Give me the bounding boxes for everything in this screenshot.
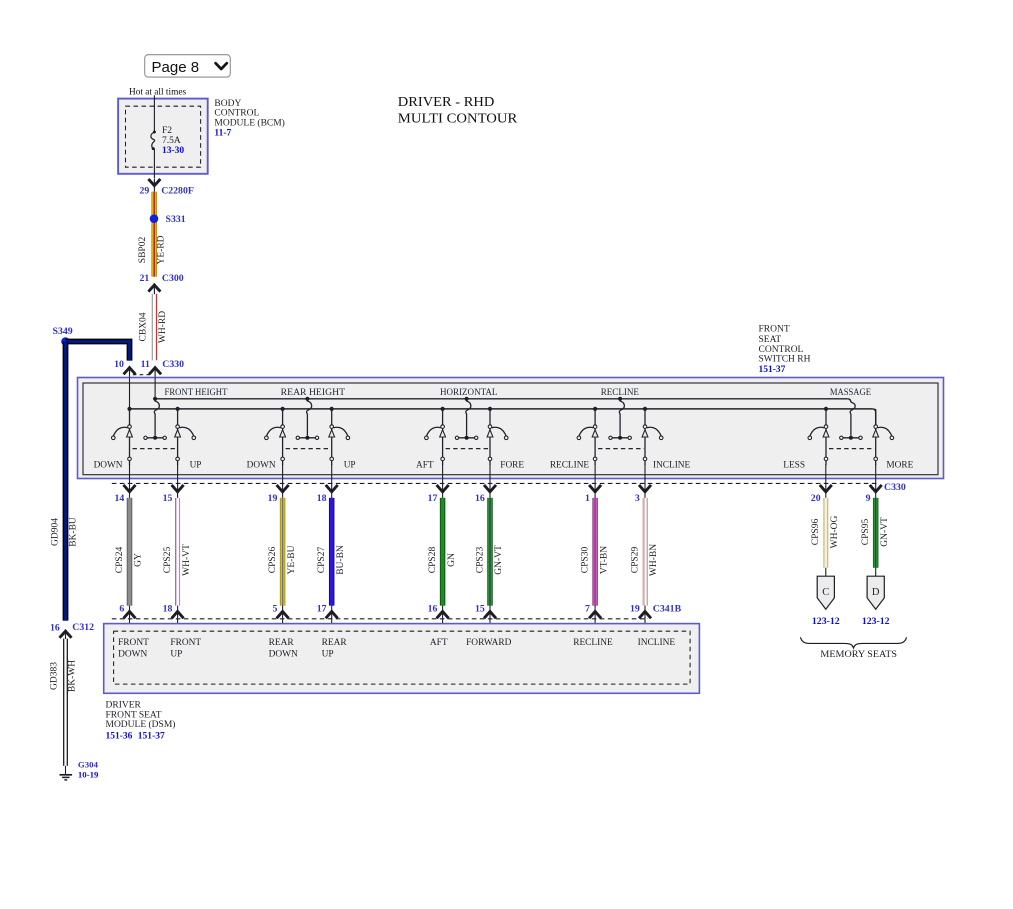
memory seats brace [801, 637, 907, 648]
svg-text:11-7: 11-7 [214, 129, 231, 139]
svg-text:FORWARD: FORWARD [466, 638, 512, 648]
svg-text:DOWN: DOWN [118, 650, 147, 660]
wire CPS23 GN-VT [475, 498, 504, 606]
svg-text:REAR: REAR [322, 638, 348, 648]
connector C330 label bottom [884, 482, 906, 493]
switch FRONT HEIGHT DOWN [112, 407, 133, 465]
svg-text:CPS95: CPS95 [861, 519, 871, 546]
svg-text:MEMORY SEATS: MEMORY SEATS [820, 650, 897, 660]
svg-text:19: 19 [268, 493, 278, 504]
switch box output pin 15 arrow [163, 464, 184, 504]
svg-text:FRONT SEAT: FRONT SEAT [106, 710, 162, 720]
svg-text:CPS28: CPS28 [428, 547, 438, 574]
switch FRONT HEIGHT UP [175, 407, 196, 465]
svg-text:G304: G304 [78, 760, 99, 770]
section label FRONT HEIGHT [165, 388, 228, 398]
svg-text:GD383: GD383 [49, 662, 59, 690]
svg-text:CPS24: CPS24 [115, 547, 125, 574]
bus wire from pin 10 common (bus2) [130, 409, 876, 427]
inline connector D 123-12 [862, 568, 890, 627]
svg-text:MODULE (DSM): MODULE (DSM) [106, 719, 176, 730]
wire CPS29 WH-BN [630, 498, 659, 606]
contact bar FRONT HEIGHT [144, 436, 167, 440]
wire CPS28 GN [428, 498, 457, 606]
splice S331 [150, 214, 186, 225]
connector C341B label [653, 603, 682, 614]
svg-text:GY: GY [134, 553, 144, 567]
mechanical link HORIZONTAL [446, 448, 489, 450]
contact bar HORIZONTAL [455, 436, 478, 440]
switch box output pin 9 arrow [866, 464, 882, 504]
svg-text:21: 21 [140, 273, 150, 284]
svg-text:SWITCH RH: SWITCH RH [759, 355, 811, 365]
svg-text:LESS: LESS [783, 460, 805, 470]
svg-text:14: 14 [115, 493, 125, 504]
svg-text:3: 3 [635, 493, 640, 504]
svg-text:SEAT: SEAT [759, 335, 782, 345]
switch REAR HEIGHT UP [329, 407, 350, 465]
svg-text:C341B: C341B [653, 603, 682, 614]
svg-text:CPS96: CPS96 [811, 519, 821, 546]
section label RECLINE [601, 388, 640, 398]
svg-text:18: 18 [163, 603, 173, 614]
svg-text:16: 16 [428, 603, 438, 614]
contact bar REAR HEIGHT [296, 436, 319, 440]
svg-text:CPS30: CPS30 [581, 547, 591, 574]
svg-text:YE-RD: YE-RD [157, 235, 167, 264]
svg-text:CPS23: CPS23 [475, 547, 485, 574]
DSM input pin 17 arrow [317, 603, 338, 631]
mechanical link MASSAGE [829, 448, 875, 450]
switch RECLINE RECLINE [577, 407, 598, 465]
svg-text:AFT: AFT [430, 638, 448, 648]
connector C330 boundary dashed line [112, 482, 879, 484]
svg-text:WH-VT: WH-VT [182, 544, 192, 576]
svg-text:MODULE (BCM): MODULE (BCM) [214, 117, 284, 128]
switch HORIZONTAL FORE [487, 407, 508, 465]
switch box output pin 3 arrow [635, 464, 651, 504]
wire pin 11 entry into box [154, 378, 156, 399]
svg-text:FRONT: FRONT [170, 638, 201, 648]
label DOWN / UP [94, 460, 202, 470]
DSM input pin 7 arrow [585, 603, 601, 631]
svg-text:123-12: 123-12 [812, 616, 840, 627]
switch MASSAGE MORE [873, 409, 894, 465]
svg-text:UP: UP [170, 650, 182, 660]
BCM module box [118, 99, 208, 174]
svg-text:WH-RD: WH-RD [158, 311, 168, 343]
svg-text:D: D [872, 587, 880, 598]
DSM input pin 18 arrow [163, 603, 184, 631]
switch box output pin 19 arrow [268, 464, 289, 504]
label LESS / MORE [783, 460, 913, 470]
svg-text:1: 1 [585, 493, 590, 504]
wire CBX04 WH-RD [138, 294, 167, 361]
section label HORIZONTAL [440, 388, 498, 398]
page select dropdown [145, 55, 231, 77]
svg-text:13-30: 13-30 [162, 146, 184, 156]
svg-text:15: 15 [475, 603, 485, 614]
svg-text:RECLINE: RECLINE [573, 638, 613, 648]
connector C341B boundary dashed line [112, 618, 648, 620]
svg-text:MULTI CONTOUR: MULTI CONTOUR [398, 111, 518, 126]
svg-text:7: 7 [585, 603, 590, 614]
switch box output pin 1 arrow [585, 464, 601, 504]
wire from hot feed into fuse [153, 95, 155, 132]
label RECLINE / INCLINE [550, 460, 691, 470]
switch box output pin 14 arrow [115, 464, 136, 504]
svg-text:CPS25: CPS25 [163, 547, 173, 574]
svg-text:C: C [822, 587, 829, 598]
wire CPS30 VT-BN [581, 498, 610, 606]
wire CPS27 BU-BN [317, 498, 346, 606]
svg-text:29: 29 [140, 186, 150, 197]
svg-text:CONTROL: CONTROL [759, 345, 804, 355]
DSM function label AFT [430, 638, 448, 648]
svg-text:YE-BU: YE-BU [287, 545, 297, 574]
svg-text:REAR HEIGHT: REAR HEIGHT [281, 388, 346, 398]
svg-text:20: 20 [811, 493, 821, 504]
connector C300 pin 21 [140, 273, 184, 294]
svg-text:RECLINE: RECLINE [550, 460, 590, 470]
wire CPS25 WH-VT [163, 498, 192, 606]
front seat control switch RH box [78, 378, 944, 479]
svg-text:10: 10 [114, 359, 124, 370]
svg-text:GD904: GD904 [50, 518, 60, 546]
wire SBP02 YE-RD [138, 192, 167, 277]
label Hot at all times [129, 87, 186, 97]
contact bar MASSAGE [840, 436, 863, 440]
wire from fuse to BCM box bottom [153, 149, 155, 179]
svg-text:C330: C330 [884, 482, 906, 493]
driver front seat module DSM box [104, 624, 700, 694]
switch box output pin 17 arrow [428, 464, 449, 504]
node RECLINE center tap [618, 397, 624, 436]
switch RECLINE INCLINE [642, 407, 663, 465]
svg-text:INCLINE: INCLINE [653, 460, 690, 470]
svg-text:17: 17 [428, 493, 438, 504]
connector C312 pin 16 [50, 622, 94, 639]
svg-text:C312: C312 [72, 622, 94, 633]
node REAR HEIGHT center tap [305, 397, 311, 436]
svg-text:BU-BN: BU-BN [336, 545, 346, 575]
svg-text:RECLINE: RECLINE [601, 388, 640, 398]
svg-text:MORE: MORE [886, 460, 913, 470]
svg-text:16: 16 [475, 493, 485, 504]
label MEMORY SEATS [820, 650, 897, 660]
connector C2280F pin 29 arrow [140, 179, 194, 197]
title DRIVER - RHD MULTI CONTOUR [398, 94, 518, 126]
wire CPS95 GN-VT [861, 498, 890, 568]
connector C330 pins 10 and 11 [114, 359, 184, 378]
switch REAR HEIGHT DOWN [265, 407, 286, 465]
svg-text:CONTROL: CONTROL [214, 109, 259, 119]
svg-text:GN: GN [447, 553, 457, 567]
DSM function label RECLINE [573, 638, 613, 648]
svg-text:9: 9 [866, 493, 871, 504]
fuse F2 7.5A 13-30 [151, 126, 185, 156]
mechanical link REAR HEIGHT [286, 448, 331, 450]
wire GD904 BK-BU down from S349 [50, 342, 78, 621]
ground G304 10-19 [60, 760, 100, 780]
svg-text:6: 6 [119, 603, 124, 614]
svg-text:7.5A: 7.5A [162, 136, 181, 146]
label DOWN / UP [247, 460, 356, 470]
node MASSAGE center tap [850, 402, 855, 436]
switch box output pin 16 arrow [475, 464, 496, 504]
label FRONT SEAT CONTROL SWITCH RH 151-37 [759, 325, 811, 375]
svg-text:18: 18 [317, 493, 327, 504]
bus wire from pin 11 feed (bus1) [155, 399, 851, 403]
section label REAR HEIGHT [281, 388, 346, 398]
svg-text:GN-VT: GN-VT [494, 545, 504, 575]
svg-text:INCLINE: INCLINE [638, 638, 676, 648]
switch box output pin 18 arrow [317, 464, 338, 504]
svg-text:WH-OG: WH-OG [830, 516, 840, 549]
splice S349 [53, 326, 73, 346]
svg-text:UP: UP [344, 460, 356, 470]
inline connector C 123-12 [812, 568, 840, 627]
switch MASSAGE LESS [808, 407, 829, 465]
DSM function label FRONT UP [170, 638, 201, 660]
svg-text:5: 5 [272, 603, 277, 614]
svg-text:REAR: REAR [269, 638, 295, 648]
svg-text:DRIVER: DRIVER [106, 701, 142, 711]
DSM function label REAR UP [322, 638, 348, 660]
svg-text:BK-BU: BK-BU [69, 517, 79, 547]
DSM input pin 19 arrow [630, 603, 651, 631]
svg-text:DOWN: DOWN [269, 650, 298, 660]
svg-text:VT-BN: VT-BN [599, 546, 609, 574]
svg-text:151-37: 151-37 [759, 365, 786, 375]
svg-text:FRONT: FRONT [118, 638, 149, 648]
mechanical link RECLINE [598, 448, 644, 450]
node HORIZONTAL center tap [465, 397, 471, 436]
svg-text:S331: S331 [166, 214, 186, 225]
DSM input pin 6 arrow [119, 603, 135, 631]
svg-text:17: 17 [317, 603, 327, 614]
DSM function label REAR DOWN [269, 638, 298, 660]
svg-text:GN-VT: GN-VT [880, 517, 890, 547]
svg-text:19: 19 [630, 603, 640, 614]
contact bar RECLINE [609, 436, 632, 440]
svg-text:DOWN: DOWN [247, 460, 276, 470]
svg-text:SBP02: SBP02 [138, 237, 148, 264]
wire CPS24 GY [115, 498, 144, 606]
svg-text:HORIZONTAL: HORIZONTAL [440, 388, 498, 398]
wire CPS26 YE-BU [268, 498, 297, 606]
svg-text:FRONT: FRONT [759, 325, 790, 335]
svg-text:F2: F2 [162, 126, 172, 136]
label BODY CONTROL MODULE (BCM) 11-7 [214, 99, 284, 139]
wire pin 10 entry into box [129, 378, 131, 409]
svg-text:S349: S349 [53, 326, 73, 337]
mechanical link FRONT HEIGHT [133, 448, 177, 450]
svg-text:BODY: BODY [214, 99, 241, 109]
DSM input pin 5 arrow [272, 603, 288, 631]
svg-text:15: 15 [163, 493, 173, 504]
switch HORIZONTAL AFT [425, 407, 446, 465]
svg-text:FORE: FORE [500, 460, 524, 470]
svg-text:C2280F: C2280F [161, 186, 194, 197]
label AFT / FORE [416, 460, 524, 470]
svg-text:CPS26: CPS26 [268, 547, 278, 574]
node FRONT HEIGHT center tap [153, 397, 159, 436]
svg-text:CPS27: CPS27 [317, 547, 327, 574]
svg-text:WH-BN: WH-BN [649, 544, 659, 576]
DSM function label FORWARD [466, 638, 512, 648]
wire GD383 BK-WH to ground [49, 639, 77, 766]
label DRIVER FRONT SEAT MODULE (DSM) [106, 701, 176, 742]
svg-text:DRIVER - RHD: DRIVER - RHD [398, 94, 495, 109]
svg-text:FRONT HEIGHT: FRONT HEIGHT [165, 388, 228, 398]
svg-text:C330: C330 [162, 359, 184, 370]
DSM input pin 15 arrow [475, 603, 496, 631]
svg-text:MASSAGE: MASSAGE [830, 388, 871, 398]
svg-text:UP: UP [322, 650, 334, 660]
wire CPS96 WH-OG [811, 498, 840, 568]
svg-text:16: 16 [50, 623, 60, 634]
svg-text:DOWN: DOWN [94, 460, 123, 470]
DSM function label INCLINE [638, 638, 676, 648]
svg-text:Hot at all times: Hot at all times [129, 87, 186, 97]
svg-text:CPS29: CPS29 [630, 547, 640, 574]
svg-text:AFT: AFT [416, 460, 434, 470]
DSM input pin 16 arrow [428, 603, 449, 631]
svg-text:CBX04: CBX04 [138, 312, 148, 341]
svg-text:123-12: 123-12 [862, 616, 890, 627]
svg-text:C300: C300 [162, 273, 184, 284]
svg-text:UP: UP [190, 460, 202, 470]
svg-text:11: 11 [141, 359, 150, 370]
svg-text:Page 8: Page 8 [152, 59, 200, 76]
svg-text:151-37: 151-37 [138, 731, 165, 741]
DSM function label FRONT DOWN [118, 638, 149, 660]
svg-text:BK-WH: BK-WH [67, 660, 77, 692]
svg-text:10-19: 10-19 [78, 770, 99, 780]
svg-text:151-36: 151-36 [106, 731, 133, 741]
wire BK-BU from S349 to switch pin 10 [66, 342, 130, 361]
section label MASSAGE [830, 388, 871, 398]
switch box output pin 20 arrow [811, 464, 832, 504]
